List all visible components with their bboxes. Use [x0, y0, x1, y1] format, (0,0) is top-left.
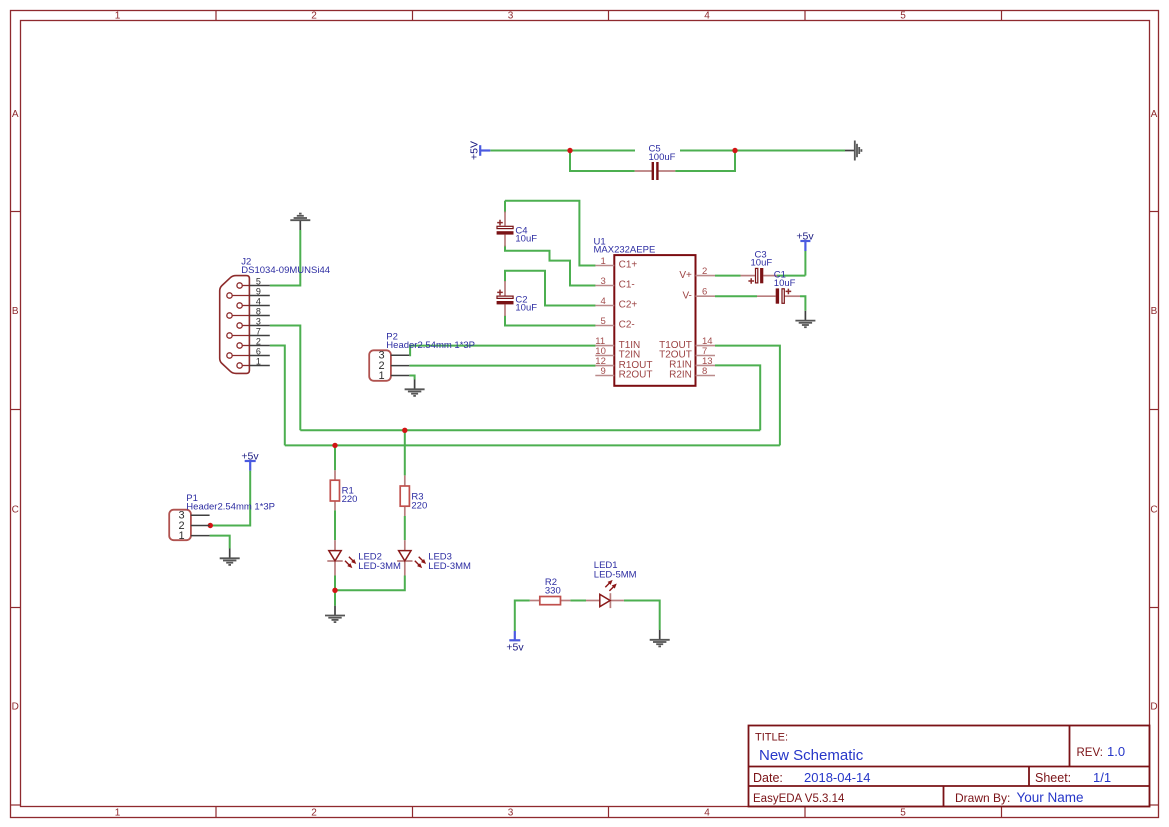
svg-text:C: C [12, 504, 19, 515]
resistor R3 220 [400, 475, 409, 516]
U1 pin 11 T1IN [595, 336, 640, 351]
svg-text:3: 3 [601, 276, 606, 287]
wire J2 pin2 down to lower bus [270, 346, 285, 446]
frame row letters right [1150, 109, 1157, 712]
capacitor C1 10uF polarized [757, 288, 800, 303]
svg-text:4: 4 [256, 296, 261, 306]
J2 pin 4 [237, 296, 270, 308]
J2 pin 5 [237, 276, 270, 288]
U1 pin 4 C2+ [595, 296, 637, 311]
connector P1 Header2.54mm 1*3P body [169, 510, 191, 541]
svg-text:A: A [1151, 109, 1158, 120]
svg-text:1.0: 1.0 [1107, 744, 1125, 759]
wire P1 pin2 to +5v flag [210, 471, 251, 526]
wire bus horizontal lower (J2 pin2 / T1OUT / R1) [285, 444, 780, 446]
svg-text:Header2.54mm 1*3P: Header2.54mm 1*3P [186, 502, 275, 513]
svg-text:2: 2 [311, 11, 317, 22]
svg-text:1: 1 [178, 530, 184, 542]
junction rail/C5 right [732, 148, 737, 153]
svg-text:REV:: REV: [1077, 747, 1103, 759]
wire C3 right to +5v drop [777, 275, 805, 277]
wire P2 pin3 to U1 T1IN [409, 346, 595, 356]
U1 pin 14 T1OUT [659, 336, 715, 351]
P1 pin 3 [178, 510, 209, 522]
power flag +5v near P1 [241, 450, 259, 470]
junction LED rail/ground [332, 588, 337, 593]
P1 pin 1 [178, 530, 209, 542]
U1 pin 1 C1+ [595, 256, 637, 271]
ground LED1 cathode [650, 630, 670, 646]
svg-text:Sheet:: Sheet: [1035, 771, 1071, 785]
svg-text:2018-04-14: 2018-04-14 [804, 770, 871, 785]
svg-text:Drawn By:: Drawn By: [955, 791, 1010, 805]
svg-text:220: 220 [342, 494, 358, 505]
capacitor C5 100uF [635, 162, 676, 180]
wire R3 bottom to LED3 top [404, 516, 406, 540]
J2 pin 8 [227, 306, 270, 318]
svg-text:7: 7 [256, 326, 261, 336]
wire J2 pin3 down to upper bus [270, 326, 301, 431]
svg-text:9: 9 [601, 366, 606, 377]
wire LED3 bottom to LED rail corner [335, 576, 405, 591]
power flag +5v near C3 [796, 230, 814, 251]
svg-text:A: A [12, 109, 19, 120]
wire C4 bottom to U1 pin3 [505, 246, 596, 286]
capacitor C3 10uF polarized [741, 268, 778, 284]
U1 pin 5 C2- [595, 316, 634, 331]
svg-text:TITLE:: TITLE: [755, 732, 788, 744]
svg-text:6: 6 [702, 287, 707, 298]
wire U1 V- to C1 left [715, 295, 757, 297]
svg-text:4: 4 [601, 296, 606, 307]
svg-text:R2IN: R2IN [669, 370, 692, 381]
svg-text:D: D [1150, 701, 1157, 712]
wire +5v to R2 left [515, 601, 530, 632]
svg-text:1: 1 [256, 356, 261, 366]
svg-text:C2-: C2- [619, 320, 635, 331]
svg-text:5: 5 [900, 808, 906, 819]
svg-text:1: 1 [115, 808, 121, 819]
resistor R2 330 [530, 597, 571, 605]
power flag +5V top-left [469, 141, 491, 160]
wire P2 pin1 to ground [409, 376, 414, 380]
svg-text:3: 3 [256, 316, 261, 326]
svg-text:10uF: 10uF [515, 233, 537, 244]
wire C2 top to U1 pin4 [505, 271, 596, 306]
P1 pin 2 [178, 520, 209, 532]
svg-text:LED-5MM: LED-5MM [594, 570, 637, 581]
svg-text:2: 2 [256, 336, 261, 346]
svg-text:R2OUT: R2OUT [619, 370, 653, 381]
svg-text:4: 4 [704, 808, 710, 819]
J2 pin 3 [237, 316, 270, 328]
svg-text:10uF: 10uF [515, 303, 537, 314]
svg-text:B: B [1151, 306, 1158, 317]
wire C1 right to ground drop [800, 296, 805, 311]
svg-text:1: 1 [378, 370, 384, 382]
P2 pin 3 [378, 350, 409, 362]
svg-text:+5v: +5v [241, 450, 259, 462]
svg-text:D: D [12, 701, 19, 712]
ground LED rail [325, 606, 345, 622]
power flag +5v below R2 [506, 631, 524, 654]
wire C4 top lead stub [504, 201, 506, 213]
wire rail right segment to ground [680, 150, 845, 152]
svg-text:V-: V- [682, 290, 691, 301]
U1 pin 3 C1- [595, 276, 634, 291]
wire R1 bottom to LED2 top [334, 510, 336, 540]
svg-text:10uF: 10uF [774, 278, 796, 289]
wire P1 pin1 to ground [210, 536, 230, 549]
svg-text:2: 2 [311, 808, 317, 819]
wire bus horizontal upper (J2 pin3 / R1IN / R3) [300, 429, 760, 431]
wire J2 pin5 to ground [270, 230, 301, 286]
ground top rail [845, 141, 861, 161]
frame row ticks left [11, 212, 21, 806]
svg-text:LED-3MM: LED-3MM [428, 561, 471, 572]
frame column numbers top [115, 11, 907, 22]
svg-text:C: C [1150, 504, 1157, 515]
svg-text:6: 6 [256, 346, 261, 356]
junction P1 pin2 [208, 523, 213, 528]
junction lower bus/R1 [332, 443, 337, 448]
svg-text:220: 220 [411, 501, 427, 512]
svg-text:+5v: +5v [796, 230, 814, 242]
frame column ticks bottom [216, 807, 1002, 818]
LED3 LED-3MM [397, 540, 428, 575]
junction rail/C5 left [567, 148, 572, 153]
svg-text:330: 330 [545, 586, 561, 597]
frame column numbers bottom [115, 808, 907, 819]
svg-text:+5V: +5V [469, 141, 481, 160]
svg-text:1: 1 [115, 11, 121, 22]
junction upper bus/R3 [402, 428, 407, 433]
svg-text:5: 5 [601, 316, 606, 327]
svg-text:B: B [12, 306, 19, 317]
op-amp/IC U1 MAX232AEPE body [614, 255, 695, 386]
frame row ticks right [1150, 212, 1159, 806]
wire C5 bypass left drop [570, 151, 635, 172]
svg-text:C2+: C2+ [619, 300, 638, 311]
svg-text:+5v: +5v [506, 642, 524, 654]
wire +5v drop to V+ row [804, 251, 806, 276]
svg-text:1/1: 1/1 [1093, 770, 1111, 785]
frame column ticks top [216, 11, 1002, 21]
svg-text:9: 9 [256, 286, 261, 296]
svg-text:3: 3 [508, 11, 514, 22]
wire lower bus to R1 top [334, 445, 336, 470]
ground above J2 [290, 214, 310, 230]
ground P1 pin1 [220, 549, 240, 565]
U1 pin 2 V+ [679, 266, 715, 281]
resistor R1 220 [330, 470, 339, 510]
ground P2 pin1 [405, 380, 425, 396]
P2 pin 1 [378, 370, 409, 382]
connector J2 DS1034-09MUNSi44 shell [220, 276, 250, 374]
wire LED1 cathode to ground drop [624, 601, 660, 631]
svg-text:3: 3 [508, 808, 514, 819]
svg-text:C1+: C1+ [619, 260, 638, 271]
svg-text:2: 2 [702, 266, 707, 277]
frame row letters left [12, 109, 19, 712]
U1 pin 10 T2IN [595, 346, 640, 361]
wire C2 bottom to U1 pin5 [505, 316, 596, 326]
svg-text:MAX232AEPE: MAX232AEPE [594, 245, 656, 256]
wire +5V rail left segment [490, 150, 635, 152]
svg-text:Date:: Date: [753, 771, 783, 785]
wire R2 right to LED1 anode [570, 600, 586, 602]
U1 pin 6 V- [682, 287, 715, 302]
J2 pin 1 [237, 356, 270, 368]
U1 pin 13 R1IN [669, 356, 715, 371]
svg-text:Header2.54mm 1*3P: Header2.54mm 1*3P [386, 340, 475, 351]
LED1 LED-5MM [586, 578, 624, 608]
wire C5 bypass right drop [675, 151, 735, 172]
capacitor C2 10uF polarized [497, 281, 514, 316]
U1 pin 7 T2OUT [659, 346, 715, 361]
wire R1IN loop right [715, 365, 760, 430]
svg-text:5: 5 [900, 11, 906, 22]
J2 pin 2 [237, 336, 270, 348]
wire P2 pin2 to U1 R1OUT [409, 365, 595, 367]
svg-text:10uF: 10uF [751, 258, 773, 269]
J2 pin 7 [227, 326, 270, 338]
svg-text:V+: V+ [679, 270, 692, 281]
title block [749, 726, 1150, 807]
svg-text:8: 8 [702, 366, 707, 377]
svg-text:New Schematic: New Schematic [759, 747, 864, 764]
svg-text:5: 5 [256, 276, 261, 286]
svg-text:DS1034-09MUNSi44: DS1034-09MUNSi44 [241, 265, 330, 276]
svg-text:100uF: 100uF [649, 152, 676, 163]
ground C1 negative [795, 311, 815, 327]
svg-text:LED-3MM: LED-3MM [358, 561, 401, 572]
LED2 LED-3MM [327, 540, 358, 575]
P2 pin 2 [378, 360, 409, 372]
svg-text:8: 8 [256, 306, 261, 316]
wire C4 top to U1 pin1 [505, 201, 596, 266]
svg-text:EasyEDA V5.3.14: EasyEDA V5.3.14 [753, 793, 845, 805]
wire U1 V+ to C3 left [715, 275, 741, 277]
J2 pin 6 [227, 346, 270, 358]
wire upper bus to R3 top [404, 430, 406, 475]
svg-text:1: 1 [601, 256, 606, 267]
J2 pin 9 [227, 286, 270, 298]
U1 pin 12 R1OUT [595, 356, 652, 371]
svg-text:C1-: C1- [619, 280, 635, 291]
svg-text:4: 4 [704, 11, 710, 22]
U1 pin 9 R2OUT [595, 366, 652, 381]
svg-text:Your Name: Your Name [1017, 790, 1084, 805]
wire LED2 bottom to LED rail [334, 576, 336, 591]
wire LED rail to ground [334, 590, 336, 605]
U1 pin 8 R2IN [669, 366, 715, 381]
connector P2 Header2.54mm 1*3P body [369, 350, 391, 381]
capacitor C4 10uF polarized [497, 212, 514, 247]
wire T1OUT loop right [715, 346, 780, 446]
